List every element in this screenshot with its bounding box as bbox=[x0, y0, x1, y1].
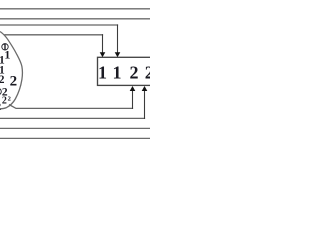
svg-text:1: 1 bbox=[113, 63, 122, 83]
arrowhead down B bbox=[100, 52, 106, 57]
wire top route 1 (cropped, full width) bbox=[0, 8, 150, 10]
circled 1 marker bbox=[2, 44, 8, 50]
svg-text:2: 2 bbox=[10, 74, 18, 90]
wire bottom route 3 (cropped, full width) bbox=[0, 127, 150, 129]
arrowhead up B2 bbox=[142, 86, 148, 91]
wire bottom route B1 into box position 3 bbox=[9, 105, 133, 109]
arrowhead up B1 bbox=[130, 86, 136, 91]
svg-text:2: 2 bbox=[8, 95, 11, 102]
circled 2 marker (cropped) bbox=[0, 88, 1, 95]
wire bottom route B2 into box position 4 bbox=[0, 117, 145, 119]
wire top route 2 (cropped, full width) bbox=[0, 18, 150, 20]
svg-text:2: 2 bbox=[145, 63, 150, 83]
svg-text:1: 1 bbox=[98, 63, 107, 83]
wire top route B into box position 1 bbox=[4, 34, 103, 36]
svg-text:1: 1 bbox=[4, 48, 10, 62]
svg-text:2: 2 bbox=[2, 96, 7, 107]
ellipse (set outline, cropped at left edge) bbox=[0, 32, 22, 109]
arrowhead down A bbox=[115, 52, 121, 57]
box (sequence, right edge cropped) bbox=[98, 57, 153, 85]
svg-text:2: 2 bbox=[0, 102, 1, 113]
wire top route A into box position 2 bbox=[0, 24, 118, 26]
wire bottom route 4 (cropped, full width) bbox=[0, 137, 150, 139]
svg-text:2: 2 bbox=[130, 63, 139, 83]
svg-text:2: 2 bbox=[0, 74, 5, 86]
